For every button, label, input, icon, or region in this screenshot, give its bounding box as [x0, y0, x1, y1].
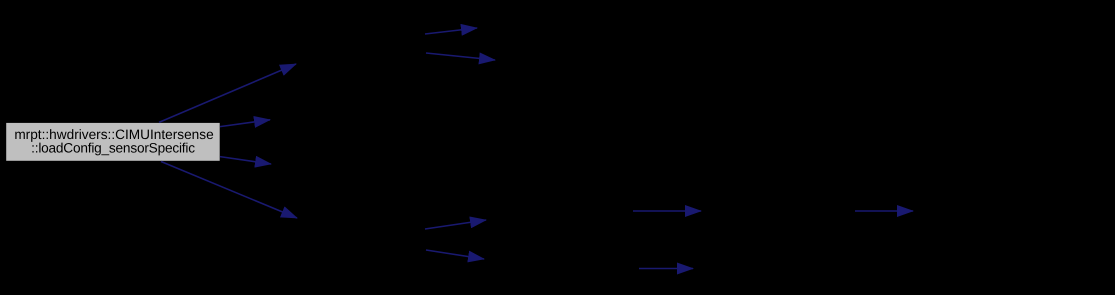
edge e1 [425, 28, 477, 34]
edge h [855, 210, 913, 212]
edge e2 [426, 53, 495, 60]
edge c: box right to mid node 2 [220, 157, 271, 164]
edge g2 [639, 268, 693, 270]
edge a: box top to upper node [159, 64, 296, 122]
edge f2 [426, 250, 484, 259]
edge f1 [425, 220, 486, 229]
svg-text:::loadConfig_sensorSpecific: ::loadConfig_sensorSpecific [31, 141, 195, 156]
edge g1 [633, 210, 701, 212]
edge d: box bottom to lower node [161, 162, 297, 219]
node box: mrpt::hwdrivers::CIMUIntersense::loadConfig_sensorSpecific [6, 122, 221, 161]
edge b: box right to mid node 1 [220, 120, 270, 127]
